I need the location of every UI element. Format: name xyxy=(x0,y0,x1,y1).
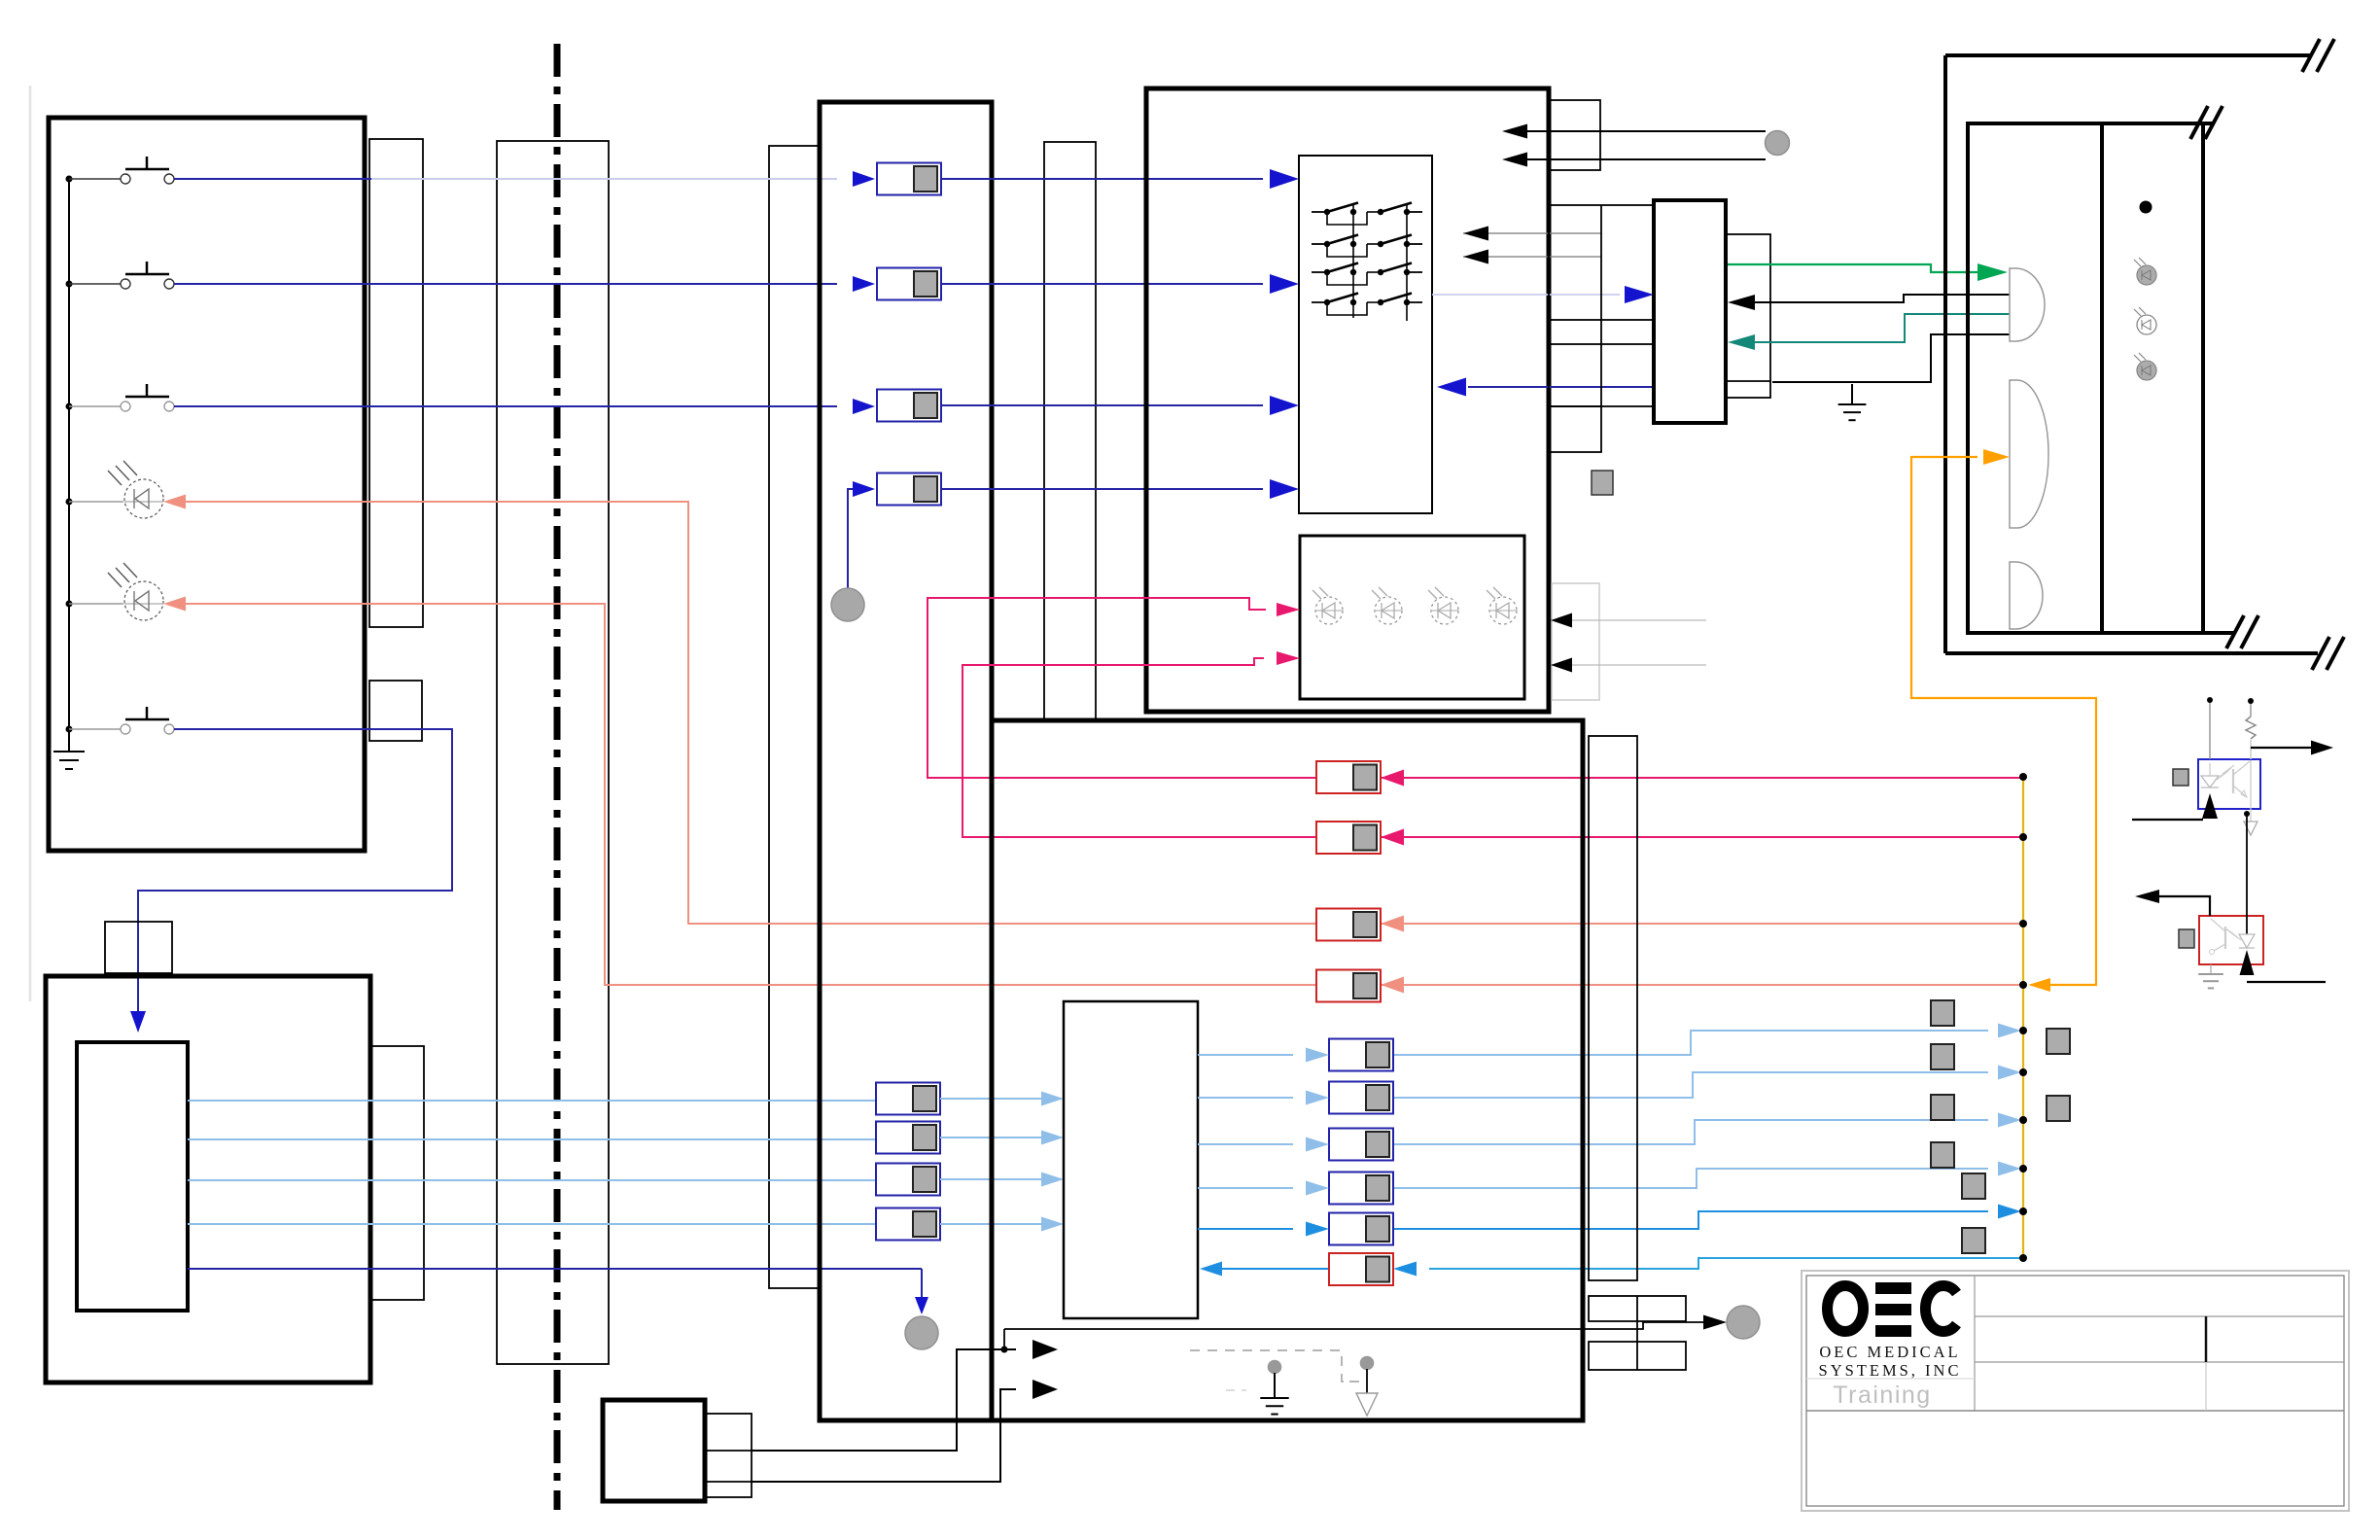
svg-text:OEC MEDICAL: OEC MEDICAL xyxy=(1819,1343,1960,1361)
svg-text:SYSTEMS, INC: SYSTEMS, INC xyxy=(1819,1361,1962,1380)
svg-text:Training: Training xyxy=(1833,1382,1931,1409)
